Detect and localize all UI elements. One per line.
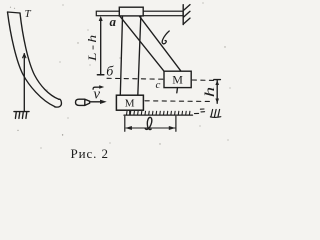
block M (lower position) [116,95,143,110]
svg-text:Рис. 2: Рис. 2 [71,146,109,161]
horizontal rail rod [96,11,183,16]
label script l [145,117,152,129]
dimension L-h top arrow [99,16,103,21]
dimension h top arrow [215,80,219,85]
label L [162,31,169,44]
svg-text:L-h: L-h [86,32,99,62]
string 1 (deflected) [120,16,164,71]
tick below lower block [129,110,131,114]
dimension h line [216,80,218,104]
dimension h bottom arrow [215,99,219,104]
vector hat over v [93,87,101,89]
svg-text:M: M [172,72,183,86]
svg-text:h: h [201,87,217,98]
dimension l extension line right [175,116,177,131]
tube exit cap [55,99,62,107]
ground (left) hatches [15,113,26,119]
svg-text:c: c [156,79,161,91]
scan speckles [10,2,231,148]
dimension l extension line left [124,116,126,131]
hatch mark sh (far right) [210,110,220,118]
ground (left) line [14,111,29,113]
ground continuation marks (right) [195,109,205,114]
dimension L-h bottom tick [97,74,103,76]
tick below raised block [176,88,179,93]
dashed level line (raised block) [107,77,163,80]
support pole [23,54,25,112]
dimension l line [126,127,175,129]
string 2 (deflected) [140,16,182,71]
dashed level line (lower block) [145,100,212,103]
velocity arrow head [100,100,107,104]
curved tube outer wall [8,12,55,107]
svg-text:M: M [125,98,135,110]
pole top arrow [23,54,26,58]
curved tube inner wall [20,13,59,99]
ground (main) line [124,114,193,116]
svg-text:v: v [93,86,100,102]
slider block a [119,7,143,16]
svg-text:б: б [106,65,114,80]
dimension L-h vertical line [100,19,102,76]
bullet [76,99,90,105]
velocity arrow shaft [90,101,104,103]
dimension l right arrow [169,126,176,130]
block M (raised position) [164,71,191,87]
svg-text:a: a [110,14,117,29]
ground (main) hatches [127,111,190,115]
tube top cap [8,12,21,13]
svg-text:T: T [25,8,32,20]
wall (right anchor) [182,5,184,25]
dimension h top bar [214,79,221,81]
dimension l left arrow [125,126,132,130]
wall hatches [183,5,190,24]
string 1 (vertical position) [120,16,122,95]
string 2 (vertical position) [138,16,141,95]
